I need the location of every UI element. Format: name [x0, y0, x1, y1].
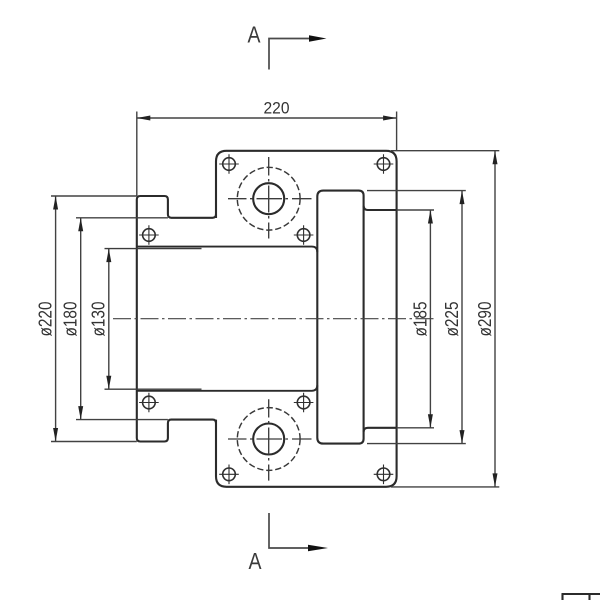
dimension phi130 line	[108, 249, 110, 390]
bolt hole hub top-right	[294, 225, 314, 245]
plate outline (290 flange plate)	[216, 151, 397, 487]
hub face upper line (window top edge)	[137, 247, 317, 253]
phi130 bore lower edge	[105, 388, 202, 390]
svg-text:A: A	[249, 548, 263, 574]
extension line phi220 bottom	[51, 441, 137, 443]
extension line 220 left	[136, 112, 138, 197]
dimension phi220 line	[55, 196, 57, 442]
phi130 bore upper edge	[105, 248, 202, 250]
dimension 220 line	[137, 117, 397, 119]
bolt hole plate top-right	[374, 154, 394, 174]
hub face lower line (window bottom edge)	[137, 385, 317, 391]
top bolt boss circle dashed	[237, 167, 300, 230]
bolt hole plate bottom-right	[374, 465, 394, 485]
top boss centerline vertical	[268, 157, 270, 239]
section mark top arrow	[309, 35, 327, 42]
hub outline (left stepped cylinder, phi220 collar / phi180 neck)	[137, 196, 216, 442]
bolt hole hub bottom-right	[294, 393, 314, 413]
dimension 220 arrow right	[383, 116, 397, 121]
extension line phi220 top	[51, 195, 137, 197]
extension line phi180 top	[76, 217, 168, 219]
main horizontal centerline	[113, 318, 436, 320]
top bolt boss circle solid	[253, 183, 284, 214]
bolt hole plate bottom-left	[219, 465, 239, 485]
svg-text:ø180: ø180	[61, 302, 81, 337]
bottom boss centerline vertical	[268, 399, 270, 480]
svg-text:ø290: ø290	[475, 302, 495, 337]
extension line phi180 bottom	[76, 419, 168, 421]
svg-text:220: 220	[264, 99, 290, 118]
section mark top bracket	[269, 39, 309, 70]
boss outline (phi225 disc)	[317, 191, 363, 444]
svg-text:ø220: ø220	[36, 302, 56, 337]
title block corner	[562, 594, 600, 600]
phi185 spigot upper step	[364, 206, 397, 210]
extension line phi290 top	[391, 150, 499, 152]
bolt hole plate top-left	[219, 154, 239, 174]
bolt hole hub bottom-left	[139, 393, 159, 413]
extension line phi185 top	[397, 209, 434, 211]
bottom boss centerline horizontal	[228, 438, 312, 440]
phi185 spigot lower step	[364, 428, 397, 432]
bottom bolt boss circle dashed	[237, 408, 300, 471]
extension line 220 right	[396, 112, 398, 151]
dimension phi290 line	[494, 151, 496, 487]
svg-text:A: A	[248, 22, 262, 48]
extension line phi290 bottom	[391, 486, 499, 488]
bottom bolt boss circle solid	[253, 424, 284, 455]
dimension phi185 line	[429, 210, 431, 428]
bolt hole hub top-left	[139, 225, 159, 245]
svg-text:ø225: ø225	[442, 302, 462, 337]
extension line phi225 bottom	[367, 443, 466, 445]
dimension 220 arrow left	[137, 116, 151, 121]
extension line phi185 bottom	[397, 427, 434, 429]
svg-text:ø130: ø130	[89, 302, 109, 337]
dimension phi225 line	[461, 191, 463, 444]
top boss centerline horizontal	[228, 198, 312, 200]
section mark bottom arrow	[308, 545, 328, 552]
section mark bottom bracket	[269, 513, 308, 548]
extension line phi225 top	[367, 190, 466, 192]
dimension phi180 line	[80, 218, 82, 420]
